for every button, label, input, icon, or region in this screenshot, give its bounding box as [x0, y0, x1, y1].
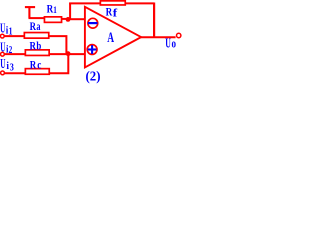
svg-text:U: U — [165, 35, 171, 50]
label Ui1 — [0, 22, 12, 38]
resistor Rb — [25, 50, 49, 56]
svg-text:c: c — [37, 58, 41, 71]
svg-text:f: f — [113, 8, 118, 20]
label Rf — [106, 4, 118, 19]
wire Rf to output drop — [126, 2, 154, 4]
resistor Rf — [100, 1, 125, 5]
label Rc — [30, 57, 42, 71]
terminal Ui2 — [1, 52, 5, 56]
label Uo — [165, 35, 176, 50]
wire R1 to node — [62, 18, 67, 20]
wire Ra to corner — [49, 36, 67, 53]
terminal Uo — [177, 33, 181, 37]
resistor R1 — [44, 17, 61, 23]
svg-text:A: A — [107, 30, 114, 46]
wire node to op-amp minus input — [70, 18, 86, 20]
op-amp inverting input symbol — [88, 18, 98, 28]
wire ground to R1 — [29, 17, 45, 19]
label Ui2 — [0, 41, 12, 57]
label R1 — [47, 3, 58, 15]
wire Rc up to plus node — [49, 55, 68, 74]
terminal Ui1 — [0, 34, 4, 38]
terminal Ui3 — [1, 71, 5, 75]
label Ui3 — [0, 57, 14, 73]
node non-inverting junction dot — [66, 51, 71, 56]
wire Ui1 to Ra — [4, 35, 24, 37]
svg-text:b: b — [36, 41, 41, 53]
svg-text:U: U — [0, 57, 5, 72]
op-amp non-inverting input symbol — [87, 45, 97, 55]
resistor Ra — [24, 33, 48, 39]
svg-text:o: o — [172, 36, 177, 50]
wire node up to feedback — [69, 3, 71, 18]
svg-text:a: a — [36, 19, 40, 33]
wire vertical drop to output — [153, 3, 155, 38]
label Ra — [30, 19, 41, 33]
wire Ui2 to Rb — [4, 53, 25, 55]
wire op-amp output to terminal — [140, 36, 175, 38]
wire Rb to op-amp plus input — [49, 53, 85, 55]
label Rb — [30, 40, 42, 53]
wire Ui3 to Rc — [4, 72, 25, 74]
svg-text:R: R — [106, 4, 113, 18]
wire feedback top to Rf — [69, 2, 100, 4]
op-amp U1 triangle — [85, 7, 141, 68]
svg-text:(2): (2) — [86, 69, 101, 85]
svg-text:1: 1 — [53, 5, 57, 15]
resistor Rc — [25, 69, 49, 75]
svg-text:3: 3 — [10, 61, 14, 73]
svg-text:R: R — [30, 57, 37, 71]
node inverting junction dot — [66, 17, 71, 22]
ground — [25, 7, 35, 18]
